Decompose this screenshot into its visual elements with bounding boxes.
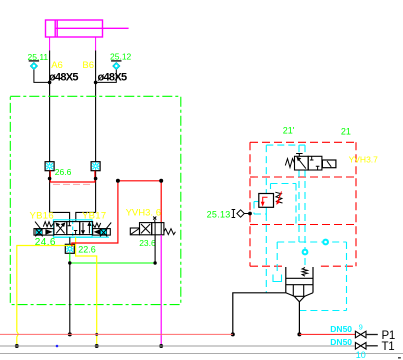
reducing valve V4 body (259, 194, 274, 208)
valve V1 left solenoid box (34, 229, 54, 236)
reducing valve V4 spring (275, 192, 282, 203)
svg-text:25.12: 25.12 (110, 51, 132, 61)
node P line right of cartridge (297, 332, 301, 336)
wire P1 stub (366, 334, 378, 336)
node P line junction (68, 332, 72, 336)
node test point junction (248, 212, 252, 216)
valve V1 right indicator square (100, 229, 106, 234)
test point 25.11 diamond (30, 62, 37, 69)
svg-text:ø48X5: ø48X5 (49, 71, 78, 83)
svg-text:T1: T1 (382, 341, 395, 353)
node green left (68, 261, 71, 264)
wire test point to red box (244, 213, 250, 215)
node red corner right (159, 179, 163, 183)
valve V2 box2 through lines (155, 223, 161, 235)
valve V1 left spring (43, 222, 54, 227)
test point 25.13 diamond (237, 210, 244, 217)
node tank line magenta (159, 344, 163, 348)
node tank line mid (95, 344, 99, 348)
valve V1 left override cross (35, 229, 42, 237)
pilot valve V3 solenoid box (322, 160, 336, 168)
pilot valve V3 spring (285, 159, 294, 168)
test point 25.13 bar (232, 210, 236, 218)
red U link between squares (50, 171, 95, 182)
node blue on T line (56, 345, 59, 348)
red manifold enclosure 21 (250, 142, 356, 266)
orifice square on line A (45, 162, 54, 171)
node green right (153, 261, 156, 264)
pilot valve V3 plug T bar (296, 154, 303, 157)
wire from test point 25.12 to line B (96, 70, 117, 83)
wire below square B (95, 171, 97, 213)
orifice square 22.6 (65, 244, 74, 253)
node junction on line A (48, 81, 52, 85)
node yellow2 red crossing (95, 333, 98, 336)
P line red left segment (0, 333, 233, 335)
valve V1 right solenoid arrow (94, 229, 101, 235)
cartridge valve seat slants (286, 293, 313, 297)
svg-text:A6: A6 (51, 60, 63, 71)
pilot valve V3 box 2 (308, 156, 322, 170)
yellow wire T left branch (17, 246, 75, 332)
valve V1 left slash (35, 222, 41, 229)
drain line gray (0, 353, 403, 355)
test point 25.12 cap bar (111, 60, 121, 62)
node A-red junction (48, 177, 52, 181)
svg-text:YB16: YB16 (30, 211, 54, 222)
svg-text:26.6: 26.6 (55, 167, 72, 177)
reducing valve V4 red adjust arrow (277, 192, 282, 204)
cartridge valve poppet guides (293, 285, 303, 297)
node P line left of cartridge (231, 332, 235, 336)
test point 25.11 cap bar (29, 60, 39, 62)
yellow wire T down branch (76, 237, 97, 346)
valve V1 right solenoid box (93, 229, 111, 236)
test point 25.12 diamond (113, 62, 120, 69)
svg-text:P1: P1 (382, 330, 395, 342)
svg-text:ø48X5: ø48X5 (98, 71, 127, 83)
valve V1 right slash (107, 223, 112, 229)
yellow wire jog at P line (17, 332, 19, 347)
cylinder port B line (magenta upper part) (95, 37, 97, 51)
svg-text:21': 21' (283, 126, 295, 136)
wire below square A (49, 171, 51, 213)
reducing valve V4 red arrow (262, 197, 268, 205)
svg-text:9: 9 (359, 323, 363, 332)
red shadow line (53, 183, 93, 185)
wire P port to orifice 22.6 (69, 237, 71, 244)
valve V1 cyan highlight (53, 220, 109, 237)
wire A to valve port (50, 212, 70, 221)
T line gray (0, 345, 355, 347)
red wire from P node to valve V2 (72, 181, 118, 247)
svg-text:23.6: 23.6 (139, 238, 156, 248)
shutoff valve T1 bowtie (355, 343, 366, 350)
black wire cartridge left branch (233, 293, 286, 335)
valve V1 position boxes (54, 222, 93, 235)
node red corner left (116, 179, 120, 183)
svg-text:22.6: 22.6 (78, 244, 96, 254)
pilot valve V3 solenoid diagonal (327, 161, 331, 167)
green subplate enclosure (dash-dot) (10, 96, 181, 304)
valve V2 spring (164, 229, 176, 235)
wire B to valve port (76, 212, 96, 221)
wire from test point 25.11 to line A (34, 70, 50, 83)
pilot valve V3 box2 closed ports (310, 156, 320, 170)
cylinder C1 body (46, 20, 103, 37)
node B-red junction (94, 177, 98, 181)
pilot valve V3 box 1 (295, 156, 309, 170)
svg-text:DN50: DN50 (330, 337, 352, 347)
valve V2 box 1 (140, 223, 152, 235)
shutoff valve P1 bowtie (355, 331, 366, 338)
cyan orifice circle B (322, 239, 329, 246)
magenta wire valve V2 down (160, 235, 162, 346)
green wire below orifice (69, 253, 71, 263)
red wire top link (118, 181, 161, 223)
black wire cartridge outlet (298, 302, 300, 335)
valve V1 left indicator square (36, 229, 42, 234)
cyan pilot enclosure 21' (254, 145, 347, 310)
valve V1 right override cross (100, 229, 107, 237)
valve V2 plugged port symbol (153, 217, 156, 223)
valve V2 box 2 (152, 223, 164, 235)
svg-text:10: 10 (356, 350, 366, 360)
black wire down to P line (69, 263, 71, 334)
svg-text:YVH3.7: YVH3.7 (349, 154, 379, 164)
valve V1 left box crossed arrows (56, 223, 64, 233)
orifice square on line B (91, 162, 100, 171)
svg-text:21: 21 (341, 126, 351, 136)
valve V1 centre box closed ports (68, 222, 78, 235)
node junction on line B (94, 81, 98, 85)
cylinder port A line (magenta upper part) (49, 37, 51, 51)
wire line A (black) (49, 51, 51, 162)
svg-text:B6: B6 (82, 60, 94, 71)
P line red right segment (299, 333, 355, 335)
wire T1 stub (366, 345, 378, 347)
cartridge valve CV sides (286, 267, 313, 293)
valve V1 left solenoid arrow (45, 229, 52, 235)
cartridge valve spring (302, 268, 307, 277)
valve V1 right box parallel arrows (82, 223, 91, 234)
node tank line left (15, 344, 19, 348)
pilot valve V3 box1 diagonal arrow (297, 158, 306, 169)
svg-text:DN50: DN50 (330, 324, 352, 334)
green wire 22.6 horizontal (70, 262, 155, 264)
valve V2 solenoid diagonal (131, 229, 139, 235)
valve V1 right spring (93, 223, 101, 228)
cylinder rod (55, 27, 128, 29)
cyan orifice circle A (302, 249, 309, 256)
wire line B (black) (95, 51, 97, 162)
black wire valve V2 to green wire (154, 235, 156, 263)
valve V2 box1 crossed arrows (141, 224, 150, 233)
cartridge valve poppet cone (294, 296, 305, 302)
cyan drain tank symbol (273, 275, 282, 282)
valve V2 solenoid box (130, 228, 139, 235)
svg-text:24.6: 24.6 (35, 237, 56, 248)
corner mark bottom right (398, 357, 401, 359)
svg-text:25.13: 25.13 (207, 209, 231, 219)
